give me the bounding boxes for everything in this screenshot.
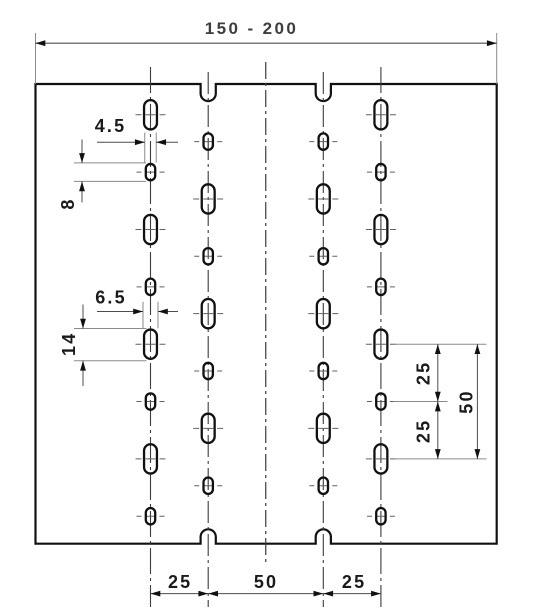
right dim extension line top	[394, 343, 486, 345]
slot col4 row3 large	[366, 215, 396, 244]
dimension 8 label	[58, 197, 78, 209]
dimension 4.5 extension lines	[145, 133, 157, 163]
slot col2 row6 large	[193, 414, 223, 443]
dimension 6.5 line	[97, 309, 178, 315]
dimension 150-200 extension line left	[35, 33, 37, 84]
centerline column 2	[207, 72, 209, 607]
bottom dim label 25 right	[342, 572, 366, 592]
slot col2 row2 large	[193, 184, 223, 213]
centerline plate axis	[265, 62, 267, 566]
svg-text:8: 8	[58, 197, 78, 209]
dimension 150-200 extension line right	[496, 33, 498, 84]
slot col4 row1 large	[366, 100, 396, 129]
slot col4 row8 small	[367, 508, 395, 524]
dimension 25 upper label	[414, 361, 434, 385]
slot col3 row4 large	[308, 299, 338, 328]
svg-text:6.5: 6.5	[95, 288, 127, 308]
svg-text:14: 14	[59, 332, 79, 356]
svg-text:25: 25	[414, 419, 434, 443]
plate outline with four edge notches	[36, 84, 497, 544]
svg-text:50: 50	[254, 572, 278, 592]
dimension 50 right line	[475, 344, 481, 459]
slot col3 row5 small	[309, 363, 337, 379]
svg-text:25: 25	[342, 572, 366, 592]
dimension 50 right label	[456, 389, 476, 413]
slot col1 row1 large	[136, 100, 166, 129]
dimension 150-200 line	[36, 40, 497, 46]
svg-text:25: 25	[414, 361, 434, 385]
slot col3 row7 small	[309, 478, 337, 494]
svg-text:50: 50	[456, 389, 476, 413]
dimension 150-200 label	[205, 19, 298, 38]
slot col4 row2 small	[367, 164, 395, 180]
slot col1 row2 small	[137, 164, 165, 180]
dimension 25 upper line	[435, 344, 441, 401]
right dim extension line bottom	[394, 458, 486, 460]
slot col3 row1 small	[309, 133, 337, 149]
slot col3 row6 large	[308, 414, 338, 443]
slot col4 row5 large	[366, 330, 396, 359]
centerline column 4	[380, 67, 382, 607]
centerline column 3	[322, 72, 324, 607]
slot col1 row3 large	[136, 215, 166, 244]
slot col3 row2 large	[308, 184, 338, 213]
slot col4 row7 large	[366, 444, 396, 473]
dimension 14 line	[80, 305, 86, 387]
dimension 4.5 label	[95, 116, 127, 136]
svg-text:25: 25	[168, 572, 192, 592]
slot col2 row5 small	[194, 363, 222, 379]
slot col1 row8 small	[137, 508, 165, 524]
slot col4 row4 small	[367, 279, 395, 295]
slot col2 row3 small	[194, 248, 222, 264]
svg-text:150 - 200: 150 - 200	[205, 19, 298, 38]
dimension 14 label	[59, 332, 79, 356]
dimension 25 lower line	[435, 402, 441, 459]
dimension 6.5 extension lines	[143, 302, 158, 328]
dimension 8 extension lines	[74, 163, 146, 182]
slot col1 row4 small	[137, 279, 165, 295]
slot col1 row5 large	[136, 330, 166, 359]
slot col2 row1 small	[194, 133, 222, 149]
dimension 8 line	[79, 140, 85, 203]
slot col1 row7 large	[136, 444, 166, 473]
dimension 25 lower label	[414, 419, 434, 443]
svg-text:4.5: 4.5	[95, 116, 127, 136]
right dim extension line middle	[394, 401, 448, 403]
bottom dim label 25 left	[168, 572, 192, 592]
bottom dim label 50	[254, 572, 278, 592]
slot col2 row4 large	[193, 299, 223, 328]
dimension 6.5 label	[95, 288, 127, 308]
slot col4 row6 small	[367, 393, 395, 409]
dimension 14 extension lines	[74, 329, 147, 361]
slot col1 row6 small	[137, 393, 165, 409]
dimension 4.5 line	[97, 139, 178, 145]
centerline column 1	[150, 67, 152, 607]
bottom dim line	[151, 591, 381, 597]
slot col3 row3 small	[309, 248, 337, 264]
slot col2 row7 small	[194, 478, 222, 494]
